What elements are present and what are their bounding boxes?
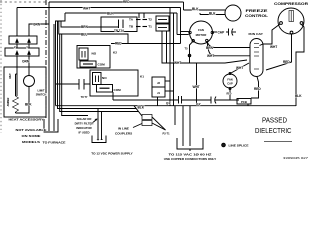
svg-text:TP T10: TP T10 — [114, 28, 124, 32]
svg-text:COM: COM — [98, 63, 106, 67]
svg-text:IN LINE: IN LINE — [118, 127, 129, 131]
svg-text:TO FURNACE: TO FURNACE — [43, 141, 66, 145]
svg-text:SWITCH: SWITCH — [36, 93, 47, 97]
svg-text:RED: RED — [227, 94, 232, 96]
svg-text:BRN: BRN — [81, 25, 89, 29]
svg-text:WHT: WHT — [193, 85, 200, 89]
svg-text:TO 115 VAC 1Ø 60 HZ: TO 115 VAC 1Ø 60 HZ — [169, 152, 212, 156]
svg-text:LIMIT: LIMIT — [37, 89, 44, 93]
svg-text:RED: RED — [123, 0, 130, 4]
svg-text:WHT: WHT — [236, 66, 243, 70]
svg-text:BLK: BLK — [138, 106, 145, 110]
svg-text:AMBER: AMBER — [7, 97, 10, 106]
svg-text:FREEZE: FREEZE — [246, 9, 269, 13]
svg-text:BLK: BLK — [295, 94, 302, 98]
svg-text:TO 12 VDC POWER SUPPLY: TO 12 VDC POWER SUPPLY — [91, 152, 133, 156]
svg-text:COUPLERS: COUPLERS — [115, 132, 132, 136]
svg-text:IF USED: IF USED — [78, 131, 89, 135]
svg-text:T1: T1 — [148, 25, 152, 29]
svg-text:RED: RED — [283, 60, 290, 64]
svg-text:FAN: FAN — [198, 28, 204, 32]
svg-text:T8 T7: T8 T7 — [81, 95, 88, 99]
svg-text:BLK: BLK — [209, 12, 216, 16]
svg-text:FAN: FAN — [227, 78, 232, 82]
svg-text:MOTOR: MOTOR — [196, 33, 208, 37]
svg-text:RUN CAP: RUN CAP — [248, 32, 262, 36]
svg-text:NOT AVAILABLE: NOT AVAILABLE — [16, 128, 47, 132]
svg-text:BLK: BLK — [25, 102, 32, 106]
svg-text:RED: RED — [254, 87, 261, 91]
svg-text:P2-T1: P2-T1 — [163, 132, 171, 136]
svg-text:USE COPPER CONDUCTORS ONLY: USE COPPER CONDUCTORS ONLY — [164, 157, 217, 161]
svg-text:CONTROL: CONTROL — [245, 14, 268, 18]
svg-text:WHT: WHT — [174, 61, 181, 65]
svg-text:BLK: BLK — [192, 7, 199, 11]
svg-text:WHT: WHT — [270, 45, 277, 49]
svg-text:3309045 027: 3309045 027 — [283, 156, 308, 160]
svg-text:ORN: ORN — [33, 22, 41, 26]
svg-text:SOLAR OR: SOLAR OR — [77, 117, 92, 121]
svg-text:NO: NO — [102, 76, 107, 80]
svg-text:WHT: WHT — [83, 6, 90, 10]
svg-text:PASSED: PASSED — [262, 118, 287, 125]
svg-text:T2: T2 — [148, 18, 152, 22]
svg-text:K1: K1 — [140, 75, 144, 79]
svg-text:ON SOME: ON SOME — [22, 134, 41, 138]
svg-text:LINE SPLICE: LINE SPLICE — [229, 144, 249, 148]
svg-text:MODELS: MODELS — [22, 140, 40, 144]
svg-text:ORN: ORN — [22, 59, 30, 63]
svg-text:DIRTY FILTER: DIRTY FILTER — [75, 122, 94, 126]
svg-text:J1: J1 — [157, 91, 160, 95]
svg-text:RED: RED — [115, 42, 122, 46]
svg-text:WHT: WHT — [9, 73, 12, 79]
svg-text:COMPRESSOR: COMPRESSOR — [274, 2, 309, 6]
svg-text:J2: J2 — [157, 81, 160, 85]
svg-text:CAP: CAP — [227, 82, 233, 86]
svg-text:K2: K2 — [113, 51, 117, 55]
svg-text:COM: COM — [114, 88, 122, 92]
svg-text:NO: NO — [92, 52, 97, 56]
svg-text:PCB: PCB — [241, 100, 247, 104]
svg-text:BLK: BLK — [107, 11, 114, 15]
svg-text:CAP: CAP — [218, 30, 226, 34]
svg-text:BLU: BLU — [81, 32, 88, 36]
svg-text:BRN: BRN — [206, 46, 214, 50]
svg-text:DIELECTRIC: DIELECTRIC — [255, 128, 292, 135]
svg-text:WHT: WHT — [207, 54, 214, 58]
svg-text:HEAT ACCESSORY: HEAT ACCESSORY — [9, 118, 45, 122]
svg-text:INDICATOR: INDICATOR — [76, 126, 91, 130]
